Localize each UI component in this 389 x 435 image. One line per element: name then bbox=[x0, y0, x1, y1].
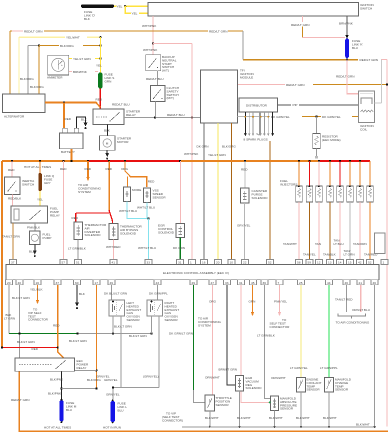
manifold absolute pressure sensor bbox=[269, 396, 297, 411]
clutch safety switch bbox=[151, 86, 180, 102]
wire battery to hot bus bbox=[71, 149, 73, 161]
svg-text:SYSTEM: SYSTEM bbox=[198, 323, 211, 327]
svg-text:PIP: PIP bbox=[293, 103, 298, 107]
fuse link S green bbox=[98, 72, 114, 88]
wire RED/LT GRN pink below link K to ignition coil bbox=[347, 60, 359, 94]
svg-text:BLU: BLU bbox=[66, 408, 72, 412]
svg-text:8 SPARK PLUGS: 8 SPARK PLUGS bbox=[244, 138, 268, 142]
svg-text:RELAY: RELAY bbox=[50, 214, 60, 218]
svg-text:37: 37 bbox=[11, 261, 15, 265]
svg-text:RED/LT BLU: RED/LT BLU bbox=[146, 77, 164, 81]
svg-text:(M/T): (M/T) bbox=[167, 96, 174, 100]
svg-text:RED: RED bbox=[96, 98, 103, 102]
svg-text:DK GRN/PPL: DK GRN/PPL bbox=[149, 292, 168, 296]
svg-text:BLK: BLK bbox=[104, 129, 111, 133]
injector 3 bbox=[316, 161, 323, 202]
svg-text:SWITCH: SWITCH bbox=[360, 7, 372, 11]
svg-text:RED/LT GRN: RED/LT GRN bbox=[291, 23, 309, 27]
throttle position sensor bbox=[205, 395, 232, 411]
svg-text:20: 20 bbox=[216, 261, 220, 265]
wire ORG pin to TPS / AC tap bbox=[198, 285, 221, 395]
svg-text:RED: RED bbox=[60, 167, 67, 171]
svg-text:YEL/LT GRN: YEL/LT GRN bbox=[73, 57, 91, 61]
wire TAN/LT RED + ORN/LT BLU to AC bbox=[335, 285, 370, 325]
svg-text:DK GRN/YEL: DK GRN/YEL bbox=[322, 115, 341, 119]
fuel injectors label bbox=[280, 179, 297, 186]
svg-text:52: 52 bbox=[268, 261, 272, 265]
fuse link L blue bbox=[103, 400, 127, 430]
svg-text:ALTERNATOR: ALTERNATOR bbox=[4, 115, 25, 119]
svg-text:BLK/ORG: BLK/ORG bbox=[222, 145, 236, 149]
wire YEL/WHT y37 bbox=[19, 36, 102, 94]
svg-text:GRN: GRN bbox=[105, 79, 112, 83]
svg-text:LT GRN/BLK: LT GRN/BLK bbox=[68, 247, 87, 251]
svg-text:GRN/YEL: GRN/YEL bbox=[106, 392, 120, 396]
svg-text:YEL: YEL bbox=[132, 12, 138, 16]
svg-text:HOT AT ALL TIMES: HOT AT ALL TIMES bbox=[44, 426, 71, 430]
starter motor bbox=[100, 136, 132, 151]
svg-text:SOLENOID: SOLENOID bbox=[246, 386, 263, 390]
svg-text:40: 40 bbox=[18, 281, 22, 285]
wire RED/LT BLU starter relay to safety switches bbox=[112, 102, 201, 118]
fuse link Q bbox=[38, 161, 54, 191]
svg-text:DK GRN: DK GRN bbox=[197, 145, 209, 149]
wire BLK/WHT MCT to ground line bbox=[323, 392, 337, 428]
svg-text:SOLENOID: SOLENOID bbox=[120, 231, 137, 235]
wire BLK starter relay to starter motor bbox=[104, 125, 111, 136]
svg-text:WHT/LT BLU: WHT/LT BLU bbox=[137, 206, 155, 210]
svg-text:BLK/LT GRN: BLK/LT GRN bbox=[114, 325, 132, 329]
injector 8 bbox=[367, 161, 374, 202]
wire RED/LT GRN bus y59 bbox=[243, 58, 378, 62]
injector 4 bbox=[327, 161, 334, 202]
inertia switch bbox=[5, 177, 36, 195]
EGR control solenoid bbox=[158, 161, 185, 238]
wire WHT/LT BLU from VSS to ECA bbox=[137, 203, 156, 260]
wire RED/LT GRN relay to bottom feed bus bbox=[11, 371, 388, 431]
svg-text:RED/LT BLU: RED/LT BLU bbox=[112, 102, 130, 106]
svg-text:TAN/LT GRN: TAN/LT GRN bbox=[2, 235, 20, 239]
svg-text:51: 51 bbox=[76, 261, 80, 265]
fuse link M blue bbox=[44, 399, 77, 430]
svg-text:BLK/WHT: BLK/WHT bbox=[356, 423, 370, 427]
wire pink ignition to backup switch junction bbox=[143, 42, 158, 54]
wire BLK/WHT TPS to ground line bbox=[205, 411, 219, 428]
wire BRN/LT GRN pin47 to EGR vacuum regulator bbox=[205, 285, 237, 385]
wire LT GRN/BLK diverter to ECA bbox=[68, 240, 87, 260]
wire orange alternator output to battery and starter relay bbox=[45, 101, 100, 128]
svg-text:M: M bbox=[106, 142, 109, 146]
svg-text:BLK/ORG: BLK/ORG bbox=[87, 378, 101, 382]
svg-text:BLK: BLK bbox=[79, 292, 86, 296]
wire RED/LT BLU backup to clutch switch bbox=[146, 71, 164, 86]
svg-text:BLK/WHT: BLK/WHT bbox=[296, 416, 310, 420]
svg-text:58: 58 bbox=[297, 261, 301, 265]
wire WHT/RED bypass to ECA bbox=[106, 240, 121, 260]
svg-text:31: 31 bbox=[239, 281, 243, 285]
svg-text:GRN/YEL: GRN/YEL bbox=[104, 378, 118, 382]
fuse link K blue bbox=[345, 39, 363, 58]
wire RED branch to diverter solenoid bbox=[72, 213, 110, 222]
svg-text:57: 57 bbox=[62, 261, 66, 265]
svg-text:SENSOR: SENSOR bbox=[127, 318, 141, 322]
injector 1 bbox=[296, 161, 303, 202]
svg-text:RED: RED bbox=[8, 168, 15, 172]
svg-text:RED/LT GRN: RED/LT GRN bbox=[11, 398, 29, 402]
wire PIP distributor to ignition coil bbox=[278, 103, 359, 107]
svg-text:RED: RED bbox=[65, 117, 72, 121]
svg-text:CONNECTOR): CONNECTOR) bbox=[162, 418, 183, 422]
svg-text:LT GRN: LT GRN bbox=[4, 316, 15, 320]
svg-text:ORN/WHT: ORN/WHT bbox=[271, 376, 286, 380]
wire BLK/ORG orange vertical to alternator bbox=[30, 46, 44, 95]
svg-text:BLU: BLU bbox=[118, 408, 124, 412]
svg-text:SENSOR: SENSOR bbox=[153, 196, 167, 200]
svg-text:CONNECTOR: CONNECTOR bbox=[28, 318, 49, 322]
svg-text:RED/LT GRN: RED/LT GRN bbox=[24, 29, 42, 33]
injector output wires to ECA bbox=[283, 202, 378, 260]
svg-text:22: 22 bbox=[243, 261, 247, 265]
wire RED/LT GRN drop from ignition switch bbox=[291, 16, 345, 38]
svg-text:33: 33 bbox=[225, 281, 229, 285]
svg-text:LT GRN/BLK: LT GRN/BLK bbox=[257, 334, 276, 338]
svg-text:MOTOR: MOTOR bbox=[117, 140, 129, 144]
svg-text:20: 20 bbox=[7, 281, 11, 285]
wire gray drop feeding y59 bus bbox=[242, 31, 244, 60]
wire BLK/PNK relay to fuse link M bbox=[48, 371, 64, 400]
ECA bottom pin connectors bbox=[6, 280, 379, 285]
svg-text:AMMETER: AMMETER bbox=[47, 76, 63, 80]
svg-text:TAN: TAN bbox=[315, 242, 321, 246]
wire RED drop x63.5 to ECA bbox=[60, 161, 67, 260]
MORE box bbox=[124, 187, 142, 202]
svg-text:LT GRN/PPL: LT GRN/PPL bbox=[320, 366, 338, 370]
svg-text:DK GRN: DK GRN bbox=[173, 246, 185, 250]
svg-text:BRN/LT GRN: BRN/LT GRN bbox=[219, 368, 237, 372]
svg-text:WHT/PNK: WHT/PNK bbox=[142, 24, 157, 28]
svg-text:RED: RED bbox=[106, 167, 113, 171]
svg-text:YEL: YEL bbox=[37, 198, 43, 202]
svg-text:MODULE: MODULE bbox=[240, 76, 253, 80]
svg-text:41: 41 bbox=[112, 261, 116, 265]
svg-text:SWITCH: SWITCH bbox=[22, 182, 34, 186]
svg-text:BLK/ORG: BLK/ORG bbox=[20, 77, 34, 81]
starter relay bbox=[93, 109, 141, 125]
svg-text:13: 13 bbox=[328, 261, 332, 265]
wire RED from trunk to relay bbox=[1, 340, 59, 351]
svg-text:DK GRN/YEL: DK GRN/YEL bbox=[271, 115, 290, 119]
injector 7 bbox=[357, 161, 364, 202]
wire BLK/ORG y45.5 bbox=[28, 44, 102, 48]
svg-text:43: 43 bbox=[156, 281, 160, 285]
svg-text:(A/T): (A/T) bbox=[162, 69, 169, 73]
wire TAN/YEL distributor tach bbox=[269, 141, 271, 260]
svg-text:YEL/BLK: YEL/BLK bbox=[30, 288, 43, 292]
svg-text:37: 37 bbox=[56, 281, 60, 285]
svg-text:SOLENOID: SOLENOID bbox=[85, 233, 102, 237]
ignition switch bbox=[148, 3, 374, 17]
svg-text:HOT IN RUN: HOT IN RUN bbox=[103, 426, 121, 430]
svg-text:RED/LT GRN: RED/LT GRN bbox=[286, 83, 304, 87]
wire LT GRN/YEL pin7 to ECT sensor bbox=[290, 285, 308, 378]
svg-text:BLK/LT GRN: BLK/LT GRN bbox=[129, 334, 147, 338]
svg-text:GRY/YEL: GRY/YEL bbox=[237, 224, 251, 228]
svg-text:BLK: BLK bbox=[84, 17, 91, 21]
svg-text:DK GRN/LT GRN: DK GRN/LT GRN bbox=[169, 332, 193, 336]
wire BLK battery ground bbox=[77, 117, 88, 129]
svg-text:46: 46 bbox=[345, 281, 349, 285]
svg-text:SYSTEM: SYSTEM bbox=[78, 190, 91, 194]
svg-text:46: 46 bbox=[373, 281, 377, 285]
wire RED/LT GRN top-left bus y31 bbox=[10, 29, 243, 33]
wire ORN/WHT pin to MAP sensor bbox=[241, 285, 286, 403]
wire LT GRN/PPL pin44 to MCT sensor bbox=[320, 285, 338, 378]
svg-text:44: 44 bbox=[327, 281, 331, 285]
wire GRN/YEL to fuse link L bbox=[104, 378, 120, 401]
alternator bbox=[3, 94, 46, 119]
wire BLK/ORG pin down to y390 bbox=[87, 285, 101, 389]
svg-text:RED/LT GRN: RED/LT GRN bbox=[360, 58, 378, 62]
svg-text:BLK/LT GRN: BLK/LT GRN bbox=[69, 339, 87, 343]
svg-text:(EEC MODE): (EEC MODE) bbox=[322, 138, 341, 142]
wire YEL/LT GRN from ammeter bbox=[69, 57, 102, 61]
svg-text:GRN: GRN bbox=[249, 300, 256, 304]
TFI ignition module bbox=[201, 69, 254, 124]
svg-text:BLK/PNK: BLK/PNK bbox=[48, 392, 62, 396]
ECA electronic control assembly box bbox=[6, 265, 379, 280]
wire clutch switch down to relay line bbox=[155, 102, 157, 118]
svg-text:SOLENOID: SOLENOID bbox=[158, 230, 175, 234]
svg-text:16: 16 bbox=[36, 281, 40, 285]
wire DK GRN/LT GRN pin17 to TPS bbox=[169, 285, 205, 403]
svg-text:RELAY: RELAY bbox=[126, 113, 136, 117]
svg-text:YEL/LT GRN: YEL/LT GRN bbox=[208, 153, 226, 157]
svg-text:BLK/ORG: BLK/ORG bbox=[60, 44, 74, 48]
svg-text:TAN/WHT: TAN/WHT bbox=[283, 242, 297, 246]
svg-text:RED: RED bbox=[148, 180, 155, 184]
svg-text:BLK/WHT: BLK/WHT bbox=[205, 416, 219, 420]
wire BRN/PNK from ammeter bbox=[69, 70, 98, 74]
svg-text:1: 1 bbox=[190, 261, 192, 265]
wire BLK/LT GRN pin40 down to EEC power relay bbox=[12, 285, 30, 358]
wire BLK/WHT MAP to ground line bbox=[269, 411, 283, 428]
wire YEL link Q to fuel pump relay bbox=[37, 191, 43, 206]
injector 2 bbox=[306, 161, 313, 202]
svg-text:PUMP: PUMP bbox=[43, 236, 52, 240]
wire gray pin46 down right bbox=[373, 285, 375, 428]
svg-text:47: 47 bbox=[211, 281, 215, 285]
wire BLK/WHT EGR VR to ground line bbox=[237, 391, 251, 428]
svg-text:RELAY: RELAY bbox=[77, 366, 87, 370]
svg-text:PNK/BLK: PNK/BLK bbox=[27, 225, 41, 229]
ground below starter motor bbox=[105, 150, 109, 159]
distributor bbox=[239, 98, 278, 112]
svg-text:BLK/LT GRN: BLK/LT GRN bbox=[17, 340, 35, 344]
wire YEL/BLK pin16 to VIP self test bbox=[28, 285, 49, 322]
bus junction dots bbox=[11, 160, 361, 162]
wire pink branch to x192 bbox=[153, 44, 192, 118]
svg-text:ELECTRONIC CONTROL ASSEMBLY (E: ELECTRONIC CONTROL ASSEMBLY (EEC IV) bbox=[163, 271, 229, 275]
svg-text:31: 31 bbox=[178, 261, 182, 265]
ECA top pin connectors bbox=[10, 260, 389, 265]
svg-text:BLK/WHT: BLK/WHT bbox=[237, 416, 251, 420]
svg-text:49: 49 bbox=[110, 281, 114, 285]
svg-text:RED: RED bbox=[72, 216, 79, 220]
ground below fuel pump bbox=[29, 245, 37, 258]
wire PNK/BLK relay to fuel pump bbox=[27, 223, 41, 231]
svg-text:SENSOR: SENSOR bbox=[165, 318, 179, 322]
svg-text:21: 21 bbox=[359, 281, 363, 285]
wire orange into alternator A bbox=[9, 31, 11, 94]
svg-text:RED: RED bbox=[85, 167, 92, 171]
wire pink right edge pin junction bbox=[386, 260, 388, 262]
svg-text:RED: RED bbox=[32, 347, 39, 351]
wire DK GRN from module bbox=[197, 123, 209, 260]
svg-text:SENSOR: SENSOR bbox=[335, 388, 349, 392]
wire RED canister purge drop bbox=[241, 161, 248, 188]
wire DK GRN/YEL module to ignition coil bbox=[238, 115, 359, 119]
svg-text:RED: RED bbox=[241, 168, 248, 172]
thermactor air diverter solenoid bbox=[74, 222, 107, 240]
svg-text:WHT/PNK: WHT/PNK bbox=[184, 152, 199, 156]
svg-text:16: 16 bbox=[202, 261, 206, 265]
svg-text:TAN/BLK: TAN/BLK bbox=[323, 253, 337, 257]
wire ORG drop x125 to MORE box and VSS bbox=[121, 161, 155, 187]
left HEGO wires down bbox=[96, 316, 121, 388]
BLK/WHT ground collector line bbox=[162, 412, 375, 427]
svg-text:17: 17 bbox=[95, 281, 99, 285]
wire WHT/PNK long pink vertical to ECA bbox=[184, 118, 199, 260]
svg-text:SENSOR: SENSOR bbox=[216, 403, 230, 407]
wire BLK/ORG from module bbox=[222, 123, 236, 260]
connector box right edge bbox=[375, 233, 386, 254]
svg-text:10: 10 bbox=[230, 261, 234, 265]
svg-text:7: 7 bbox=[278, 281, 280, 285]
wire BLK/WHT ECT to ground line bbox=[296, 392, 310, 428]
svg-text:RED/BLK: RED/BLK bbox=[8, 197, 22, 201]
svg-text:52: 52 bbox=[368, 261, 372, 265]
hot-at-all-times bus y161 bbox=[2, 161, 370, 169]
svg-text:RED/LT BLU: RED/LT BLU bbox=[167, 113, 185, 117]
wire GRN arrow down bbox=[249, 285, 256, 316]
svg-text:ORN/WHT: ORN/WHT bbox=[205, 376, 220, 380]
svg-text:59: 59 bbox=[308, 261, 312, 265]
svg-text:SENSOR: SENSOR bbox=[307, 388, 321, 392]
wire coil right to tower bbox=[375, 60, 382, 103]
svg-text:WHT/PNK: WHT/PNK bbox=[143, 48, 158, 52]
svg-text:BLK/WHT: BLK/WHT bbox=[269, 416, 283, 420]
svg-text:(GRN/YEL): (GRN/YEL) bbox=[143, 375, 159, 379]
injector 5 bbox=[337, 161, 344, 202]
wire RED fuse link S to starter relay bbox=[96, 89, 103, 110]
ammeter gauge bbox=[47, 55, 69, 79]
svg-text:ORG: ORG bbox=[209, 300, 217, 304]
svg-text:TAN/YEL: TAN/YEL bbox=[303, 253, 316, 257]
fuse link D black bar bbox=[81, 4, 114, 21]
svg-text:25: 25 bbox=[299, 281, 303, 285]
svg-text:LT GRN: LT GRN bbox=[344, 253, 355, 257]
8 spark plug wires bbox=[244, 112, 275, 142]
EGR vacuum regulator solenoid bbox=[236, 376, 263, 392]
svg-text:BRN/PNK: BRN/PNK bbox=[73, 70, 88, 74]
svg-text:SENSOR: SENSOR bbox=[280, 407, 294, 411]
VSS speed sensor bbox=[144, 188, 167, 203]
svg-text:33: 33 bbox=[147, 261, 151, 265]
svg-text:+: + bbox=[61, 63, 63, 67]
green ground bus BLK/LT GRN y333.6 bbox=[9, 333, 153, 344]
wire RED to AC system bbox=[78, 161, 101, 194]
svg-text:BLK/PNK: BLK/PNK bbox=[50, 378, 64, 382]
svg-text:SOLENOID: SOLENOID bbox=[252, 196, 269, 200]
svg-text:60: 60 bbox=[75, 281, 79, 285]
svg-text:ORG: ORG bbox=[121, 167, 129, 171]
wire BLK y390 cross link bbox=[62, 387, 98, 389]
svg-text:DISTRIBUTOR: DISTRIBUTOR bbox=[246, 104, 268, 108]
wire RED/LT GRN y84 from TFI module bbox=[238, 75, 389, 88]
wire BLK pin60 ground bbox=[75, 285, 86, 309]
wire orange trunk left edge bbox=[1, 161, 3, 348]
svg-text:15: 15 bbox=[348, 261, 352, 265]
svg-text:BLK/LT GRN: BLK/LT GRN bbox=[12, 296, 30, 300]
thermactor air bypass solenoid bbox=[109, 224, 143, 240]
wire TAN/LT GRN relay to ECA bbox=[2, 223, 20, 260]
wire YEL vertical into fuse link S bbox=[96, 37, 102, 72]
wire pink corner right edge top bbox=[381, 60, 387, 427]
wire RED pin37 to EEC power relay bbox=[53, 285, 64, 358]
svg-text:TAN/ORN: TAN/ORN bbox=[353, 242, 367, 246]
svg-text:BLK: BLK bbox=[29, 250, 36, 254]
svg-text:BLK/ORG: BLK/ORG bbox=[30, 85, 44, 89]
svg-text:COIL: COIL bbox=[360, 127, 368, 131]
svg-text:YEL: YEL bbox=[96, 64, 102, 68]
ignition coil bbox=[359, 91, 375, 131]
svg-text:LT BLU: LT BLU bbox=[334, 242, 344, 246]
svg-text:42: 42 bbox=[358, 261, 362, 265]
wire BLK/ORG gray vertical to alternator bbox=[20, 46, 34, 95]
svg-text:WHT/LT BLU: WHT/LT BLU bbox=[119, 209, 137, 213]
wire YEL lower branch to ignition switch bbox=[125, 6, 148, 15]
backup neutral start switch bbox=[146, 55, 177, 73]
injector 6 bbox=[347, 161, 354, 202]
manifold charge temp sensor bbox=[325, 377, 352, 392]
left HEGO sensor bbox=[104, 285, 141, 329]
svg-text:CONNECTOR: CONNECTOR bbox=[270, 325, 291, 329]
svg-text:DK BLU/LT GRN: DK BLU/LT GRN bbox=[104, 292, 127, 296]
wire RED drop x112 to thermactor bypass solenoid bbox=[106, 161, 113, 224]
svg-text:RED: RED bbox=[53, 324, 60, 328]
svg-text:ORN/LT BLU: ORN/LT BLU bbox=[352, 308, 370, 312]
wire YEL/LT GRN from module bbox=[208, 123, 226, 260]
svg-text:BLU: BLU bbox=[352, 46, 358, 50]
fuel pump relay bbox=[11, 206, 60, 223]
wire RED drop to inertia switch bbox=[8, 161, 15, 177]
svg-text:36: 36 bbox=[263, 281, 267, 285]
svg-text:BLK: BLK bbox=[81, 118, 88, 122]
EEC power relay bbox=[15, 358, 89, 371]
svg-text:WHT/RED: WHT/RED bbox=[106, 245, 121, 249]
svg-text:PNK/YEL: PNK/YEL bbox=[274, 300, 287, 304]
wire RED/BLK inertia to fuel pump relay bbox=[8, 195, 22, 207]
svg-text:1: 1 bbox=[383, 261, 385, 265]
svg-text:YEL/WHT: YEL/WHT bbox=[66, 36, 80, 40]
battery bbox=[60, 128, 84, 154]
svg-text:BLK/WHT: BLK/WHT bbox=[323, 416, 337, 420]
svg-text:RED/LT GRN: RED/LT GRN bbox=[336, 75, 354, 79]
fuel pump bbox=[30, 231, 52, 245]
svg-text:HOT AT ALL TIMES: HOT AT ALL TIMES bbox=[24, 165, 51, 169]
svg-text:14: 14 bbox=[338, 261, 342, 265]
svg-text:45: 45 bbox=[251, 281, 255, 285]
